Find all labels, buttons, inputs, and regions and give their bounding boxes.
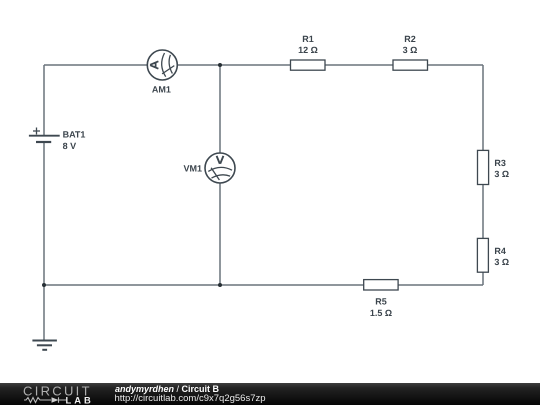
svg-text:3 Ω: 3 Ω <box>494 169 509 179</box>
svg-text:R5: R5 <box>375 297 387 307</box>
svg-text:1.5 Ω: 1.5 Ω <box>370 308 392 318</box>
svg-text:AM1: AM1 <box>152 85 171 95</box>
svg-text:BAT1: BAT1 <box>63 130 86 140</box>
svg-text:R3: R3 <box>494 158 506 168</box>
svg-text:LAB: LAB <box>66 395 94 405</box>
svg-text:12 Ω: 12 Ω <box>298 45 318 55</box>
svg-text:3 Ω: 3 Ω <box>494 257 509 267</box>
svg-text:R4: R4 <box>494 246 506 256</box>
svg-text:VM1: VM1 <box>183 164 202 174</box>
svg-text:3 Ω: 3 Ω <box>403 45 418 55</box>
svg-text:R1: R1 <box>302 34 314 44</box>
svg-text:8 V: 8 V <box>63 141 77 151</box>
svg-text:R2: R2 <box>404 34 416 44</box>
